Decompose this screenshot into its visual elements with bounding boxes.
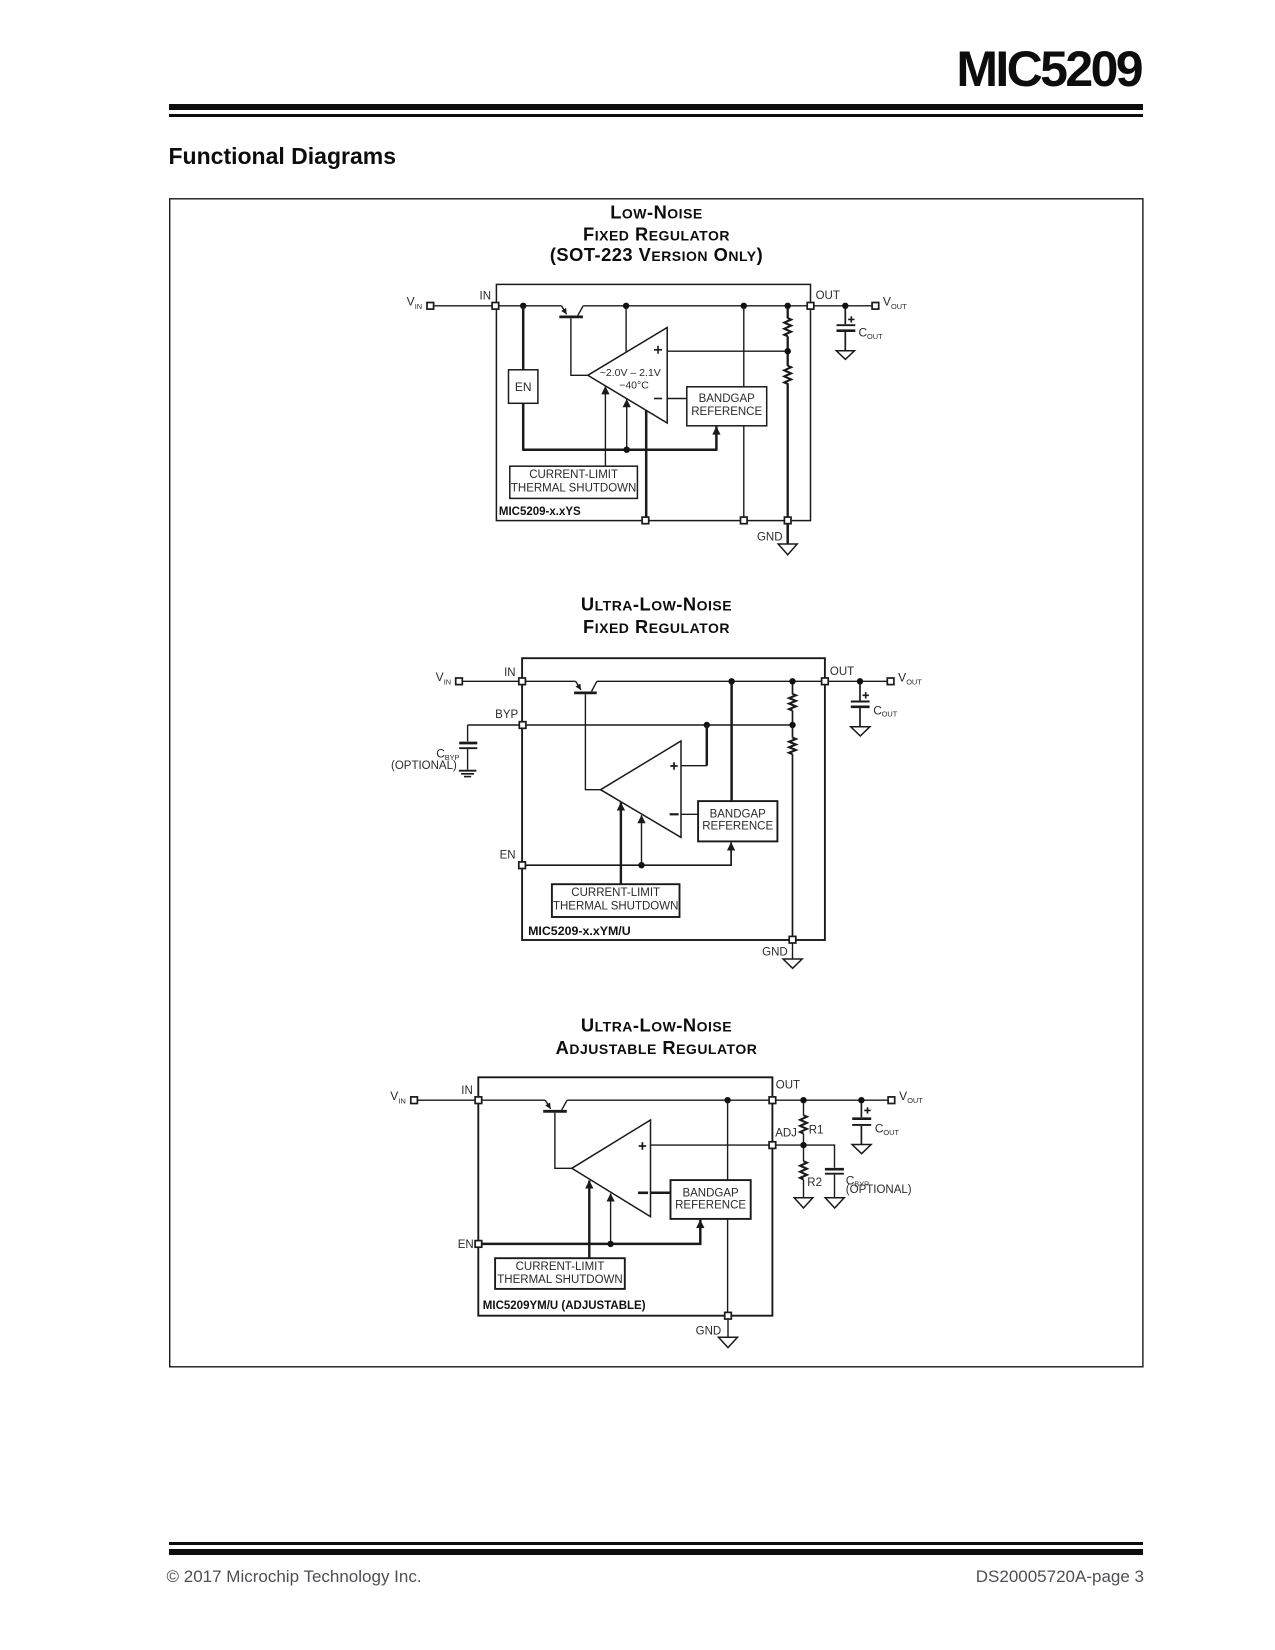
transistor Q2 emitter <box>576 681 581 690</box>
svg-text:ULTRA-LOW-NOISE: ULTRA-LOW-NOISE <box>581 1015 732 1036</box>
arrow: EN bus into bandgap <box>482 1220 701 1244</box>
svg-text:FIXED REGULATOR: FIXED REGULATOR <box>583 616 730 637</box>
pin pad BYP <box>519 722 526 729</box>
header thin rule <box>169 114 1144 117</box>
svg-text:REFERENCE: REFERENCE <box>691 406 762 418</box>
wire: EN drop from rail <box>522 306 525 370</box>
op-amp U1 error amplifier <box>588 328 667 424</box>
junction: amp supply branch <box>623 303 629 309</box>
pin pad VIN <box>427 303 434 310</box>
ground symbol COUT <box>852 1145 871 1154</box>
ground symbol <box>783 959 802 968</box>
resistor R2 (zigzag) <box>800 1161 807 1179</box>
svg-text:R1: R1 <box>809 1124 824 1136</box>
junction: + input riser <box>704 722 710 728</box>
op-amp non-inverting + symbol <box>670 762 677 769</box>
wire: bandgap supply drop <box>743 306 745 387</box>
earth ground bar 3 <box>464 776 471 778</box>
svg-text:BANDGAP: BANDGAP <box>710 808 767 820</box>
earth ground bar 2 <box>461 773 474 775</box>
capacitor CBYP ground lead <box>467 749 469 770</box>
svg-text:V: V <box>407 294 415 308</box>
arrow: shutdown bus into bandgap <box>525 842 731 865</box>
resistor R1 bottom lead <box>803 1134 805 1146</box>
capacitor COUT lead <box>860 1103 862 1117</box>
svg-text:MIC5209YM/U (ADJUSTABLE): MIC5209YM/U (ADJUSTABLE) <box>483 1300 646 1312</box>
wire: input rail to Q3 emitter <box>482 1099 546 1101</box>
svg-text:OUT: OUT <box>906 678 922 687</box>
svg-text:V: V <box>390 1089 398 1103</box>
svg-text:LOW-NOISE: LOW-NOISE <box>610 201 703 222</box>
junction: feedback divider branch <box>789 678 795 684</box>
pin pad VOUT <box>887 678 894 685</box>
footer document number <box>976 1567 1144 1587</box>
wire OUT to VOUT <box>814 305 872 307</box>
transistor Q2 base bar <box>574 692 597 695</box>
wire: amp output to GND pin <box>645 410 648 517</box>
transistor Q3 base bar <box>543 1110 567 1113</box>
ground symbol COUT <box>836 351 854 360</box>
pin pad GND <box>789 936 796 943</box>
wire: divider top lead <box>792 684 794 694</box>
pin pad ADJ <box>769 1142 776 1149</box>
wire: bandgap to GND pin <box>727 1219 729 1313</box>
polarity + of COUT <box>863 692 869 698</box>
svg-text:V: V <box>883 294 891 308</box>
svg-text:THERMAL SHUTDOWN: THERMAL SHUTDOWN <box>511 482 636 494</box>
svg-text:OUT: OUT <box>891 302 907 311</box>
IC box MIC5209-x.xYS <box>496 284 810 520</box>
svg-text:FIXED REGULATOR: FIXED REGULATOR <box>583 224 730 245</box>
transistor Q3 emitter <box>545 1100 550 1109</box>
junction on EN line <box>638 862 644 868</box>
block current-limit thermal shutdown <box>495 1258 625 1289</box>
svg-text:IN: IN <box>504 667 516 679</box>
svg-text:V: V <box>898 670 906 684</box>
svg-text:GND: GND <box>762 946 788 958</box>
wire: - input to bandgap <box>681 813 698 815</box>
footer thick rule <box>169 1549 1144 1555</box>
wire: divider bottom to GND pin <box>787 383 789 517</box>
junction: bandgap supply branch <box>728 678 734 684</box>
svg-text:OUT: OUT <box>776 1079 800 1091</box>
wire OUT to VOUT <box>828 680 887 682</box>
junction: feedback divider branch <box>785 303 791 309</box>
pin pad IN <box>519 678 526 685</box>
polarity + of COUT <box>864 1107 870 1113</box>
svg-text:CURRENT-LIMIT: CURRENT-LIMIT <box>529 469 618 481</box>
junction: bandgap supply branch <box>724 1097 730 1103</box>
block current-limit thermal shutdown <box>552 884 680 917</box>
arrow: current limit into amp <box>588 1181 590 1259</box>
arrow: current limit into amp <box>604 386 606 466</box>
wire: output rail <box>597 680 822 682</box>
junction: EN branch <box>520 303 526 309</box>
op-amp inverting - symbol <box>654 398 662 400</box>
svg-text:V: V <box>436 670 444 684</box>
svg-text:ADJ: ADJ <box>775 1128 797 1140</box>
svg-text:R2: R2 <box>807 1177 822 1189</box>
op-amp U3 error amplifier <box>572 1120 651 1217</box>
svg-text:V: V <box>899 1089 907 1103</box>
wire: divider middle <box>787 336 789 366</box>
svg-text:(OPTIONAL): (OPTIONAL) <box>846 1184 912 1196</box>
op-amp inverting - symbol <box>670 813 679 815</box>
resistor R1 top lead <box>803 1103 805 1115</box>
transistor Q1 emitter <box>561 306 566 314</box>
svg-text:OUT: OUT <box>816 290 840 302</box>
svg-text:EN: EN <box>500 850 516 862</box>
op-amp inverting - symbol <box>638 1192 648 1195</box>
svg-text:OUT: OUT <box>830 666 854 678</box>
capacitor COUT top plate <box>851 701 870 703</box>
capacitor COUT ground lead <box>844 332 846 351</box>
wire: divider middle <box>792 711 794 738</box>
resistor R lower (zigzag) <box>784 366 791 384</box>
resistor R2 top lead <box>803 1148 805 1161</box>
resistor R upper (zigzag) <box>789 694 796 711</box>
wire: BYP rail <box>468 724 793 726</box>
block EN <box>509 370 538 404</box>
wire: bandgap supply drop <box>730 681 733 801</box>
wire: bandgap ground drop <box>743 426 745 517</box>
transistor Q3 collector <box>562 1100 567 1110</box>
pin pad OUT <box>807 303 814 310</box>
ground symbol R2 <box>794 1198 813 1208</box>
svg-text:IN: IN <box>398 1096 405 1105</box>
wire VIN to IN <box>434 305 493 307</box>
pin pad VIN <box>456 678 463 685</box>
svg-text:THERMAL SHUTDOWN: THERMAL SHUTDOWN <box>497 1274 622 1286</box>
pin pad IN <box>475 1097 482 1104</box>
svg-text:REFERENCE: REFERENCE <box>702 821 773 833</box>
wire ADJ to CBYP <box>776 1145 835 1168</box>
svg-text:CURRENT-LIMIT: CURRENT-LIMIT <box>516 1261 605 1273</box>
svg-text:EN: EN <box>458 1239 474 1251</box>
svg-text:−40°C: −40°C <box>619 379 649 391</box>
capacitor CBYP bottom plate <box>459 747 477 749</box>
IC box MIC5209-x.xYM/U <box>522 658 825 940</box>
capacitor COUT bottom plate <box>837 329 856 332</box>
pin pad IN <box>492 303 499 310</box>
pin pad VIN <box>411 1097 418 1104</box>
wire: output rail <box>567 1099 769 1101</box>
wire: bandgap supply drop <box>727 1100 729 1180</box>
svg-text:~2.0V – 2.1V: ~2.0V – 2.1V <box>600 367 661 379</box>
capacitor CBYP top plate <box>459 742 477 745</box>
wire: amp supply drop <box>625 306 627 352</box>
transistor Q1 base bar <box>559 315 583 318</box>
pin pad EN <box>519 862 526 869</box>
capacitor COUT lead <box>844 309 846 324</box>
capacitor CBYP lead <box>467 725 469 741</box>
ground symbol <box>719 1337 738 1347</box>
block bandgap reference <box>671 1180 751 1219</box>
section heading <box>169 143 396 171</box>
svg-text:ADJUSTABLE REGULATOR: ADJUSTABLE REGULATOR <box>556 1037 758 1058</box>
IC box MIC5209YM/U <box>478 1077 772 1315</box>
earth ground bar 1 <box>459 770 477 772</box>
svg-text:CURRENT-LIMIT: CURRENT-LIMIT <box>571 887 660 899</box>
wire: input rail to Q2 emitter <box>525 680 575 682</box>
junction: COUT branch <box>842 303 848 309</box>
svg-text:EN: EN <box>515 380 532 394</box>
pin pad bandgap GND <box>741 517 748 524</box>
wire VIN to IN <box>417 1099 475 1101</box>
arrow: current limit into amp <box>620 802 622 884</box>
transistor Q2 collector <box>592 681 597 691</box>
resistor R2 bottom lead <box>803 1180 805 1198</box>
footer thin rule <box>169 1542 1144 1545</box>
ground symbol COUT <box>851 727 870 736</box>
svg-text:ULTRA-LOW-NOISE: ULTRA-LOW-NOISE <box>581 593 732 614</box>
wire: + input to divider tap <box>667 350 788 352</box>
polarity + of COUT <box>848 316 854 322</box>
pin pad VOUT <box>872 303 879 310</box>
capacitor CBYP ground lead <box>834 1175 836 1198</box>
outer frame of Functional Diagrams <box>170 199 1143 1367</box>
capacitor COUT ground lead <box>860 1126 862 1145</box>
junction: bandgap supply branch <box>741 303 747 309</box>
svg-text:MIC5209-x.xYM/U: MIC5209-x.xYM/U <box>528 924 631 938</box>
header thick rule <box>169 104 1144 110</box>
wire OUT to VOUT <box>776 1099 888 1101</box>
svg-text:(SOT-223 VERSION ONLY): (SOT-223 VERSION ONLY) <box>550 244 763 265</box>
pin pad divider GND <box>784 517 791 524</box>
pin pad amp output GND <box>642 517 649 524</box>
svg-text:OUT: OUT <box>882 710 898 719</box>
capacitor CBYP top plate <box>825 1168 844 1171</box>
wire: input rail to Q1 emitter <box>499 305 562 307</box>
junction: COUT branch <box>858 1097 864 1103</box>
ground symbol <box>778 544 797 555</box>
op-amp non-inverting + symbol <box>639 1142 646 1149</box>
svg-text:BANDGAP: BANDGAP <box>699 393 756 405</box>
pin pad EN <box>475 1241 482 1248</box>
svg-text:GND: GND <box>757 532 783 544</box>
block bandgap reference <box>698 801 777 841</box>
wire: + riser to BYP rail <box>706 725 709 766</box>
arrow: shutdown into amp <box>641 815 643 865</box>
pin pad OUT <box>822 678 829 685</box>
op-amp U2 error amplifier <box>601 741 681 837</box>
ground symbol CBYP <box>825 1198 844 1208</box>
arrow: shutdown into amp <box>610 1194 612 1244</box>
svg-text:GND: GND <box>696 1325 722 1337</box>
resistor R lower (zigzag) <box>789 738 796 755</box>
wire: divider bottom to GND pin <box>792 754 794 936</box>
svg-text:THERMAL SHUTDOWN: THERMAL SHUTDOWN <box>553 901 678 913</box>
capacitor COUT top plate <box>852 1117 871 1120</box>
transistor Q1 collector <box>578 306 583 316</box>
wire: EN box to shutdown bus <box>523 403 716 449</box>
wire: - input to bandgap <box>651 1192 671 1195</box>
wire: - input to bandgap <box>667 398 687 400</box>
wire: divider top lead <box>787 309 789 319</box>
svg-text:(OPTIONAL): (OPTIONAL) <box>391 760 457 772</box>
resistor R1 (zigzag) <box>800 1115 807 1133</box>
svg-text:IN: IN <box>480 290 492 302</box>
wire: output rail <box>583 305 807 307</box>
pin pad OUT <box>769 1097 776 1104</box>
block current-limit thermal shutdown <box>510 466 638 498</box>
capacitor COUT ground lead <box>859 708 861 727</box>
svg-text:IN: IN <box>415 302 422 311</box>
capacitor COUT lead <box>859 684 861 700</box>
svg-text:REFERENCE: REFERENCE <box>675 1200 746 1212</box>
junction: divider tap <box>785 348 791 354</box>
wire Q1 base to error amp output <box>571 318 588 375</box>
junction: R1/R2 tap <box>800 1142 806 1148</box>
svg-text:OUT: OUT <box>867 332 883 341</box>
footer copyright <box>167 1567 422 1587</box>
pin pad GND <box>725 1312 732 1319</box>
svg-text:MIC5209-x.xYS: MIC5209-x.xYS <box>499 506 581 518</box>
junction: R1 branch <box>800 1097 806 1103</box>
svg-text:OUT: OUT <box>883 1128 899 1137</box>
junction: divider tap <box>789 722 795 728</box>
junction: COUT branch <box>857 678 863 684</box>
arrow: shutdown into amp <box>626 399 628 450</box>
wire: GND stem <box>792 943 794 959</box>
capacitor CBYP bottom plate <box>825 1173 844 1175</box>
junction on shutdown bus <box>624 447 630 453</box>
resistor R upper (zigzag) <box>784 318 791 336</box>
pin pad VOUT <box>888 1097 895 1104</box>
op-amp non-inverting + symbol <box>654 346 662 354</box>
header product title MIC5209 <box>956 44 1141 94</box>
wire Q2 base to error amp output <box>585 694 600 789</box>
wire: + input to ADJ <box>651 1144 770 1146</box>
svg-text:OUT: OUT <box>907 1096 923 1105</box>
capacitor COUT top plate <box>837 324 856 326</box>
capacitor COUT bottom plate <box>852 1124 871 1126</box>
svg-text:IN: IN <box>444 677 451 686</box>
svg-text:BANDGAP: BANDGAP <box>682 1187 739 1199</box>
wire: GND stem <box>786 524 789 544</box>
svg-text:IN: IN <box>461 1085 473 1097</box>
wire VIN to IN <box>462 680 519 682</box>
wire Q3 base to error amp output <box>555 1113 572 1169</box>
junction on EN line <box>607 1241 613 1247</box>
block bandgap reference <box>687 387 767 426</box>
svg-text:BYP: BYP <box>495 709 518 721</box>
wire: + input to BYP <box>681 765 707 767</box>
capacitor COUT bottom plate <box>851 705 870 708</box>
wire: GND stem <box>727 1319 729 1337</box>
